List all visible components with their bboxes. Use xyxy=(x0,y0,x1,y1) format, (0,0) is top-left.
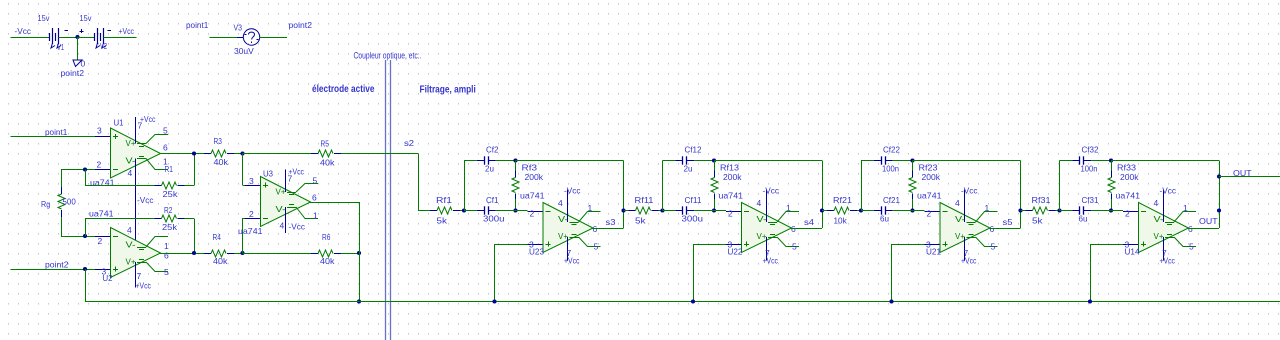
svg-text:5: 5 xyxy=(163,126,168,136)
svg-text:-Vcc: -Vcc xyxy=(1160,186,1177,196)
svg-text:4: 4 xyxy=(955,198,960,208)
svg-text:point2: point2 xyxy=(289,20,313,30)
svg-text:15v: 15v xyxy=(80,13,93,23)
wire R1 right run xyxy=(185,185,195,187)
wire U3 pin3 riser xyxy=(242,154,244,186)
svg-text:s5: s5 xyxy=(1003,217,1013,227)
svg-text:300u: 300u xyxy=(682,214,704,224)
wire Rf1 to node xyxy=(460,210,464,212)
node rail dot (U14) xyxy=(1088,299,1092,303)
wire pin3 run (U14) xyxy=(1090,244,1123,246)
polarity mark - (V2) xyxy=(108,30,112,32)
wire feedback drop (U23) xyxy=(623,161,625,229)
wire input riser (U22) xyxy=(662,161,664,211)
svg-text:25k: 25k xyxy=(163,189,179,199)
node U2 out dot xyxy=(192,251,196,255)
wire point2 rail riser xyxy=(85,269,87,302)
svg-text:ua741: ua741 xyxy=(719,191,744,201)
svg-text:3: 3 xyxy=(97,126,102,136)
svg-text:R6: R6 xyxy=(322,232,331,242)
svg-text:4: 4 xyxy=(558,198,563,208)
node junction dot xyxy=(75,35,79,39)
svg-text:3: 3 xyxy=(926,240,931,250)
wire Rf3 bottom lead xyxy=(515,199,517,211)
svg-text:V-: V- xyxy=(1154,214,1164,224)
svg-text:Cf12: Cf12 xyxy=(685,145,702,155)
wire +Vcc xyxy=(104,37,137,39)
svg-text:40k: 40k xyxy=(320,256,335,266)
svg-text:Rg: Rg xyxy=(41,199,50,209)
svg-text:5: 5 xyxy=(1189,242,1194,252)
svg-text:25k: 25k xyxy=(162,222,178,232)
capacitor Cf2 xyxy=(477,160,485,162)
svg-text:R4: R4 xyxy=(213,232,222,242)
pin 4 line (U14) xyxy=(1163,190,1165,223)
resistor Rf21 xyxy=(827,210,834,212)
wire U3 output drop xyxy=(359,202,361,253)
svg-text:V3: V3 xyxy=(234,23,243,33)
wire reference rail xyxy=(85,301,1280,303)
svg-text:R3: R3 xyxy=(214,136,223,146)
node U1 pin2 dot xyxy=(83,167,87,171)
pin 7 line (U22) xyxy=(766,237,768,261)
pin 7 line (U1) xyxy=(135,117,137,144)
node output dot (U14) xyxy=(1217,208,1221,212)
svg-text:V-: V- xyxy=(126,240,136,250)
wire top right (U21) xyxy=(913,160,1021,162)
svg-text:Cf21: Cf21 xyxy=(883,195,900,205)
svg-text:6u: 6u xyxy=(1079,214,1088,224)
wire top left (U14) xyxy=(1060,160,1073,162)
resistor R4 xyxy=(204,253,211,255)
wire s2 to Rf1 xyxy=(418,210,430,212)
node input dot (U22) xyxy=(660,208,664,212)
svg-text:1: 1 xyxy=(1183,203,1188,213)
svg-text:1: 1 xyxy=(164,241,169,251)
svg-text:5k: 5k xyxy=(635,216,646,226)
svg-text:200k: 200k xyxy=(525,172,544,182)
svg-text:V-: V- xyxy=(126,156,136,166)
svg-text:7: 7 xyxy=(567,248,572,258)
wire input to cap (U22) xyxy=(663,210,676,212)
svg-text:2u: 2u xyxy=(485,164,494,174)
wire input to cap (U14) xyxy=(1060,210,1073,212)
wire U2 pin2 run xyxy=(61,236,95,238)
wire input to cap (U21) xyxy=(861,210,874,212)
svg-text:4: 4 xyxy=(1154,198,1159,208)
wire top mid (U21) xyxy=(893,160,913,162)
wire Rf13 bottom lead xyxy=(714,199,716,211)
svg-text:V+: V+ xyxy=(126,138,136,148)
node Rf23 bottom dot xyxy=(910,208,914,212)
wire node to R6 xyxy=(243,253,312,255)
wire Rf11 to node xyxy=(659,210,663,212)
node Rf13 bottom dot xyxy=(712,208,716,212)
wire Rf13 top lead xyxy=(714,161,716,173)
svg-text:ua741: ua741 xyxy=(917,191,942,201)
battery V2 xyxy=(94,33,96,41)
svg-text:ua741: ua741 xyxy=(238,226,263,236)
wire R6 to output riser xyxy=(341,253,359,255)
op-amp U21 xyxy=(940,203,990,253)
wire Rf33 top lead xyxy=(1111,161,1113,173)
svg-text:2: 2 xyxy=(1125,209,1130,219)
svg-text:5: 5 xyxy=(991,242,996,252)
resistor Rf33 xyxy=(1111,171,1113,178)
svg-text:4: 4 xyxy=(127,225,132,235)
wire -Vcc xyxy=(11,37,50,39)
source V3 xyxy=(243,29,259,45)
svg-text:Cf2: Cf2 xyxy=(486,145,499,155)
svg-text:15v: 15v xyxy=(38,13,51,23)
svg-text:40k: 40k xyxy=(214,157,229,167)
svg-text:2: 2 xyxy=(98,236,103,246)
wire R2 right run xyxy=(185,218,195,220)
op-amp U14 xyxy=(1139,203,1189,253)
wire Rf23 top lead xyxy=(912,161,914,173)
op-amp U2 xyxy=(111,228,161,278)
pin 4 line (U22) xyxy=(766,190,768,223)
wire output to rail xyxy=(359,253,361,302)
node rail dot (U3) xyxy=(357,299,361,303)
svg-text:100n: 100n xyxy=(1081,164,1098,174)
svg-text:Filtrage, ampli: Filtrage, ampli xyxy=(420,85,476,96)
svg-text:2: 2 xyxy=(249,209,254,219)
capacitor Cf22 xyxy=(874,160,882,162)
svg-text:7: 7 xyxy=(288,174,293,184)
resistor R2 xyxy=(155,218,162,220)
wire R3 to node xyxy=(234,153,243,155)
svg-text:-Vcc: -Vcc xyxy=(137,195,154,205)
svg-text:point2: point2 xyxy=(61,68,85,78)
wire cap to pin2 (U14) xyxy=(1091,210,1123,212)
wire top mid (U22) xyxy=(694,160,714,162)
svg-text:1: 1 xyxy=(313,211,318,221)
node Rf33 top dot xyxy=(1109,158,1113,162)
svg-text:+Vcc: +Vcc xyxy=(136,281,152,291)
node input dot (U21) xyxy=(859,208,863,212)
wire pin3 run (U21) xyxy=(892,244,925,246)
resistor Rg xyxy=(61,187,63,194)
svg-text:électrode active: électrode active xyxy=(312,84,375,95)
wire top left (U23) xyxy=(464,160,477,162)
wire input riser (U21) xyxy=(861,161,863,211)
wire pin3 drop (U14) xyxy=(1090,244,1092,302)
svg-text:point1: point1 xyxy=(45,127,68,137)
wire Rg bottom riser xyxy=(61,217,63,236)
svg-text:+Vcc: +Vcc xyxy=(119,26,135,36)
svg-text:V+: V+ xyxy=(955,231,965,241)
wire R5 to s2 corner xyxy=(341,153,418,155)
wire feedback drop (U21) xyxy=(1020,161,1022,229)
wire Rg top riser xyxy=(61,170,63,188)
wire U2 output xyxy=(160,253,204,255)
capacitor Cf1 xyxy=(477,210,485,212)
pin 7 line (U3) xyxy=(285,170,287,193)
wire Rf33 bottom lead xyxy=(1111,199,1113,211)
pin 4 line (U3) xyxy=(285,207,287,233)
svg-text:Rf31: Rf31 xyxy=(1032,195,1051,205)
svg-text:1: 1 xyxy=(786,203,791,213)
node input dot (U14) xyxy=(1057,208,1061,212)
svg-text:V1: V1 xyxy=(57,42,64,52)
svg-text:6u: 6u xyxy=(880,214,889,224)
resistor R5 xyxy=(311,153,318,155)
capacitor Cf12 xyxy=(675,160,683,162)
svg-text:V+: V+ xyxy=(276,187,286,197)
svg-text:Rf33: Rf33 xyxy=(1117,163,1136,173)
svg-text:-Vcc: -Vcc xyxy=(564,186,581,196)
wire input to cap (U23) xyxy=(464,210,477,212)
wire top right (U22) xyxy=(714,160,822,162)
svg-text:5: 5 xyxy=(792,242,797,252)
wire point1 to V3 xyxy=(210,37,244,39)
svg-text:OUT: OUT xyxy=(1233,168,1252,178)
wire Rf3 top lead xyxy=(515,161,517,173)
node Rf13 top dot xyxy=(712,158,716,162)
wire pin3 run (U23) xyxy=(495,244,528,246)
wire to next stage xyxy=(1021,210,1026,212)
svg-text:1: 1 xyxy=(588,203,593,213)
wire pin3 drop (U23) xyxy=(494,244,496,302)
resistor Rf23 xyxy=(912,171,914,178)
wire top right (U23) xyxy=(516,160,624,162)
svg-text:V-: V- xyxy=(955,214,965,224)
polarity mark + (V2) xyxy=(80,31,84,33)
svg-text:Rf13: Rf13 xyxy=(720,163,739,173)
wire V3 to point2 xyxy=(260,37,287,39)
svg-text:5: 5 xyxy=(313,176,318,186)
wire U3 output xyxy=(310,202,359,204)
svg-text:3: 3 xyxy=(529,240,534,250)
wire top left (U22) xyxy=(663,160,676,162)
wire output (U23) xyxy=(593,228,624,230)
svg-text:s2: s2 xyxy=(404,138,414,148)
wire U3 pin2 riser xyxy=(242,218,244,253)
svg-text:Cf11: Cf11 xyxy=(685,195,702,205)
svg-text:7: 7 xyxy=(137,271,142,281)
svg-text:ua741: ua741 xyxy=(89,209,114,219)
svg-text:V-: V- xyxy=(558,214,568,224)
resistor R6 xyxy=(311,253,318,255)
svg-text:Rf1: Rf1 xyxy=(436,195,452,205)
pin 4 line (U21) xyxy=(964,190,966,223)
svg-text:OUT: OUT xyxy=(1199,216,1218,226)
wire s2 drop xyxy=(418,154,420,211)
resistor Rf31 xyxy=(1026,210,1033,212)
wire top right (U14) xyxy=(1111,160,1219,162)
svg-text:V+: V+ xyxy=(558,231,568,241)
svg-text:s3: s3 xyxy=(606,217,616,227)
svg-text:R5: R5 xyxy=(321,139,330,149)
svg-text:V+: V+ xyxy=(126,257,136,267)
wire cap to pin2 (U22) xyxy=(694,210,726,212)
svg-text:Rf23: Rf23 xyxy=(919,163,938,173)
svg-text:3: 3 xyxy=(102,267,107,277)
wire top mid (U23) xyxy=(496,160,516,162)
wire feedback drop (U22) xyxy=(822,161,824,229)
battery V1 xyxy=(49,33,51,41)
svg-text:R2: R2 xyxy=(164,205,173,215)
wire R1 right riser xyxy=(194,154,196,186)
wire point2 net xyxy=(11,269,96,271)
resistor R1 xyxy=(155,185,162,187)
svg-text:500: 500 xyxy=(63,197,77,207)
ground 0 xyxy=(73,60,82,67)
wire feedback drop (U14) xyxy=(1219,161,1221,229)
svg-text:Coupleur optique, etc..: Coupleur optique, etc.. xyxy=(354,51,422,61)
svg-text:5k: 5k xyxy=(1032,216,1043,226)
wire input riser (U23) xyxy=(464,161,466,211)
wire cap to pin2 (U23) xyxy=(496,210,528,212)
svg-text:-Vcc: -Vcc xyxy=(961,186,978,196)
wire to next stage xyxy=(822,210,827,212)
svg-text:U3: U3 xyxy=(263,169,273,179)
wire point1 net xyxy=(11,136,96,138)
svg-text:5: 5 xyxy=(164,267,169,277)
svg-text:6: 6 xyxy=(164,251,169,261)
wire Rf23 bottom lead xyxy=(912,199,914,211)
svg-text:-Vcc: -Vcc xyxy=(289,222,306,232)
svg-text:0: 0 xyxy=(81,59,86,69)
resistor Rf1 xyxy=(430,210,437,212)
wire input riser (U14) xyxy=(1059,161,1061,211)
svg-text:3: 3 xyxy=(1125,240,1130,250)
wire Rf31 to node xyxy=(1056,210,1060,212)
node output dot (U22) xyxy=(820,208,824,212)
svg-text:s4: s4 xyxy=(804,217,814,227)
pin 7 line (U2) xyxy=(135,262,137,288)
svg-text:7: 7 xyxy=(1162,248,1167,258)
wire cap to pin2 (U21) xyxy=(893,210,925,212)
capacitor Cf31 xyxy=(1072,210,1080,212)
node rail dot (U22) xyxy=(691,299,695,303)
svg-text:7: 7 xyxy=(964,248,969,258)
wire node to R5 xyxy=(243,153,312,155)
svg-text:V+: V+ xyxy=(1154,231,1164,241)
op-amp U23 xyxy=(543,203,593,253)
svg-text:7: 7 xyxy=(138,121,143,131)
svg-text:ua741: ua741 xyxy=(1116,191,1141,201)
svg-text:2: 2 xyxy=(97,160,102,170)
wire output (U21) xyxy=(990,228,1021,230)
resistor Rf3 xyxy=(515,171,517,178)
pin 4 line (U23) xyxy=(567,190,569,223)
wire R4 to node xyxy=(234,253,243,255)
wire U1 pin2 run xyxy=(61,169,95,171)
node R4/R6 dot xyxy=(240,251,244,255)
node point2 dot xyxy=(83,267,87,271)
svg-text:2: 2 xyxy=(530,209,535,219)
wire top mid (U14) xyxy=(1091,160,1111,162)
svg-text:2: 2 xyxy=(728,209,733,219)
svg-text:3: 3 xyxy=(249,176,254,186)
pin 7 line (U23) xyxy=(567,237,569,261)
wire V1 to junction xyxy=(59,37,78,39)
wire to next stage xyxy=(624,210,629,212)
wire output (U22) xyxy=(791,228,822,230)
wire Rf21 to node xyxy=(857,210,861,212)
op-amp U1 xyxy=(111,128,161,178)
svg-text:-Vcc: -Vcc xyxy=(15,26,32,36)
svg-text:4: 4 xyxy=(757,198,762,208)
svg-text:ua741: ua741 xyxy=(520,191,545,201)
op-amp U22 xyxy=(742,203,792,253)
wire R2 right drop xyxy=(194,219,196,254)
svg-text:Cf22: Cf22 xyxy=(883,145,900,155)
svg-text:300u: 300u xyxy=(483,214,505,224)
svg-text:+Vcc: +Vcc xyxy=(140,114,156,124)
resistor Rf13 xyxy=(714,171,716,178)
node Rf33 bottom dot xyxy=(1109,208,1113,212)
polarity mark - (V1) xyxy=(65,30,69,32)
wire R1 left run xyxy=(85,185,155,187)
svg-text:100n: 100n xyxy=(882,164,899,174)
wire R2 left riser xyxy=(85,219,87,237)
wire junction to ground xyxy=(77,37,79,60)
capacitor Cf11 xyxy=(675,210,683,212)
svg-text:Rf3: Rf3 xyxy=(522,163,538,173)
node Rf23 top dot xyxy=(910,158,914,162)
node rail dot (U23) xyxy=(492,299,496,303)
svg-text:2u: 2u xyxy=(684,164,693,174)
svg-text:Rf21: Rf21 xyxy=(833,195,852,205)
node Rf3 top dot xyxy=(513,158,517,162)
svg-text:U1: U1 xyxy=(114,118,124,128)
svg-text:5k: 5k xyxy=(437,216,448,226)
svg-text:10k: 10k xyxy=(834,216,848,226)
wire pin3 run (U22) xyxy=(693,244,726,246)
svg-text:R1: R1 xyxy=(165,164,174,174)
node U1 out dot xyxy=(192,151,196,155)
capacitor Cf32 xyxy=(1072,160,1080,162)
svg-text:Rf11: Rf11 xyxy=(635,195,654,205)
pin 4/4 shared line U1-U2 xyxy=(135,159,137,248)
op-amp U3 xyxy=(261,177,311,227)
svg-text:4: 4 xyxy=(280,221,285,231)
svg-text:1: 1 xyxy=(985,203,990,213)
svg-text:200k: 200k xyxy=(723,172,742,182)
svg-text:V-: V- xyxy=(757,214,767,224)
pin 7 line (U21) xyxy=(964,237,966,261)
node R6 dot xyxy=(357,251,361,255)
svg-text:point1: point1 xyxy=(186,20,209,30)
svg-text:7: 7 xyxy=(765,248,770,258)
wire OUT tap xyxy=(1219,176,1280,178)
wire top left (U21) xyxy=(861,160,874,162)
node rail dot (U21) xyxy=(889,299,893,303)
svg-text:40k: 40k xyxy=(213,256,228,266)
node OUT tap dot xyxy=(1217,174,1221,178)
svg-text:200k: 200k xyxy=(1120,172,1139,182)
svg-text:V-: V- xyxy=(276,204,286,214)
wire U1 output xyxy=(160,153,204,155)
svg-text:2: 2 xyxy=(927,209,932,219)
node output dot (U23) xyxy=(621,208,625,212)
svg-text:5: 5 xyxy=(594,242,599,252)
svg-text:4: 4 xyxy=(128,168,133,178)
svg-text:Cf31: Cf31 xyxy=(1082,195,1099,205)
svg-text:40k: 40k xyxy=(320,158,335,168)
svg-text:point2: point2 xyxy=(45,260,69,270)
svg-text:-Vcc: -Vcc xyxy=(763,186,780,196)
resistor Rf11 xyxy=(629,210,636,212)
svg-text:Cf32: Cf32 xyxy=(1082,145,1099,155)
svg-text:Cf1: Cf1 xyxy=(486,195,499,205)
node output dot (U21) xyxy=(1018,208,1022,212)
wire pin3 drop (U22) xyxy=(693,244,695,302)
node R3/R5 dot xyxy=(240,151,244,155)
